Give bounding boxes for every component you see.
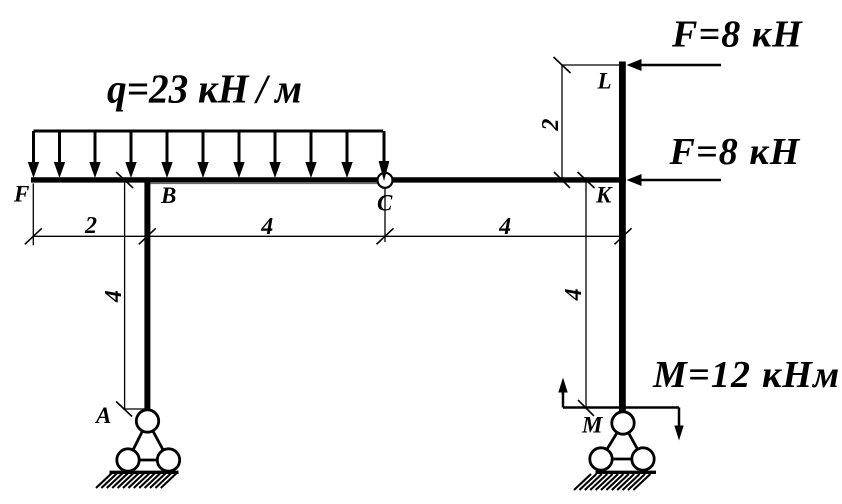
hinge C	[378, 173, 393, 188]
q arrow 2	[54, 131, 65, 178]
support M: hatching	[574, 474, 650, 490]
force F lower arrow	[627, 174, 722, 186]
svg-text:M=12 кНм: M=12 кНм	[652, 354, 840, 396]
svg-text:L: L	[597, 69, 612, 94]
svg-text:2: 2	[538, 119, 564, 132]
support M: ground line	[596, 471, 657, 474]
q arrow 9	[305, 131, 316, 178]
dimension line top-right vertical (2)	[561, 65, 563, 178]
dimension line right vertical (4)	[585, 180, 587, 408]
svg-text:F=8 кН: F=8 кН	[669, 131, 801, 173]
dimension line left vertical (4)	[124, 178, 126, 410]
beam FK horizontal member	[31, 177, 626, 182]
support A: left roller	[117, 449, 139, 471]
svg-text:B: B	[160, 183, 176, 208]
svg-text:4: 4	[101, 290, 127, 303]
q arrow 1	[28, 131, 39, 178]
tick top of right vertical dim	[578, 172, 595, 188]
tick at F on bottom dim	[25, 228, 42, 244]
left column B-A	[144, 178, 150, 409]
tick at C on bottom dim	[377, 228, 394, 244]
q arrow 5	[161, 131, 172, 178]
tick bottom of left vertical dim	[116, 402, 132, 417]
support A: hatching	[96, 472, 178, 488]
svg-text:F: F	[13, 182, 29, 207]
tick bottom of 2-dim	[554, 172, 570, 188]
q arrow 10	[341, 131, 352, 178]
connector at A	[125, 408, 145, 410]
q arrow 7	[233, 131, 244, 178]
svg-text:K: K	[595, 183, 613, 208]
svg-text:4: 4	[561, 288, 587, 301]
wire: faint line under beam B to C	[151, 183, 378, 185]
support A: right roller	[157, 449, 179, 471]
support M: right roller	[632, 448, 654, 470]
support A: pin circle	[136, 410, 158, 432]
dimension line bottom horizontal	[33, 235, 625, 237]
tick bottom of right vertical dim	[578, 400, 594, 416]
svg-text:q=23 кН / м: q=23 кН / м	[107, 66, 302, 112]
svg-text:C: C	[377, 191, 393, 216]
svg-text:4: 4	[498, 214, 511, 240]
tick at B on bottom dim	[139, 228, 156, 244]
q arrow 6	[197, 131, 208, 178]
connector at L	[562, 64, 620, 66]
distributed load q top line	[34, 130, 384, 133]
svg-text:2: 2	[84, 213, 97, 239]
right column L-M	[619, 62, 626, 412]
q arrow 3	[89, 131, 100, 178]
tick top of left vertical dim	[116, 172, 133, 188]
svg-text:M: M	[581, 413, 604, 438]
extension line at C	[384, 186, 386, 242]
moment couple M	[558, 378, 683, 441]
svg-text:F=8 кН: F=8 кН	[671, 14, 803, 56]
support A: legs	[128, 421, 169, 460]
tick at K on bottom dim	[615, 228, 632, 244]
support M: pin circle	[612, 412, 634, 434]
support M: legs	[601, 423, 643, 459]
support A: ground line	[110, 471, 179, 474]
q arrows	[28, 131, 390, 181]
q arrow 8	[269, 131, 280, 178]
svg-text:4: 4	[260, 214, 273, 240]
support M: left roller	[590, 448, 612, 470]
q arrow 4	[125, 131, 136, 178]
svg-text:A: A	[94, 403, 111, 428]
extension line at F	[32, 183, 34, 245]
tick top of 2-dim	[554, 57, 571, 73]
q arrow 11	[379, 131, 390, 181]
force F upper arrow	[627, 59, 722, 71]
